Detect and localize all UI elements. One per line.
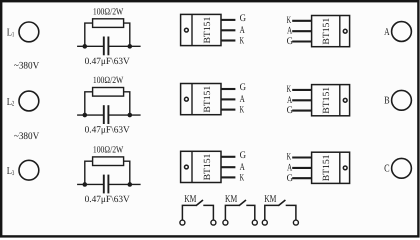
- KM (3) left terminal circle: [262, 220, 267, 225]
- wire: horizontal segment left of capacitor row 1: [77, 45, 104, 47]
- V4 pin lead A: [292, 99, 311, 101]
- wire: right riser to resistor row 3: [124, 161, 130, 184]
- svg-text:K: K: [287, 15, 292, 26]
- svg-text:KM: KM: [264, 194, 277, 205]
- KM (2) left post wire: [225, 205, 239, 220]
- wire: horizontal segment right of capacitor row 1: [108, 45, 140, 47]
- V1 pin lead G: [221, 19, 235, 21]
- svg-text:~380V: ~380V: [14, 131, 40, 142]
- KM (1) switch blade: [196, 200, 203, 206]
- wire: left riser to resistor row 2: [85, 92, 93, 115]
- resistor R 100Ω/2W row 1 body: [93, 19, 124, 28]
- svg-text:A: A: [287, 26, 293, 37]
- svg-text:BT151: BT151: [322, 18, 332, 45]
- svg-text:G: G: [287, 173, 293, 184]
- capacitor C row 1 left plate: [103, 37, 105, 56]
- svg-text:A: A: [287, 162, 293, 173]
- wire: horizontal segment left of capacitor row 3: [77, 183, 104, 185]
- junction dot right row 2: [128, 113, 133, 118]
- resistor R 100Ω/2W row 2 body: [93, 88, 124, 97]
- svg-text:G: G: [287, 36, 293, 47]
- junction dot right row 1: [128, 44, 133, 49]
- wire: right riser to resistor row 2: [124, 92, 130, 115]
- V2 pin lead G: [292, 40, 311, 42]
- terminal B circle: [392, 90, 412, 110]
- svg-text:BT151: BT151: [203, 16, 213, 43]
- capacitor C row 3 left plate: [103, 175, 105, 194]
- terminal C circle: [392, 158, 412, 178]
- svg-text:100Ω/2W: 100Ω/2W: [93, 76, 123, 86]
- V1 pin lead A: [221, 29, 235, 31]
- wire: right riser to resistor row 1: [124, 23, 130, 46]
- svg-text:A: A: [384, 27, 390, 38]
- thyristor V4 BT151 (right, row 2) package: [312, 85, 350, 116]
- wire: horizontal segment right of capacitor row 2: [108, 114, 140, 116]
- thyristor V3 BT151 (left, row 2) package: [181, 84, 221, 115]
- junction dot right row 3: [128, 182, 133, 187]
- V5 pin lead A: [221, 166, 235, 168]
- svg-text:0.47μF\63V: 0.47μF\63V: [85, 126, 130, 136]
- svg-text:A: A: [240, 25, 246, 36]
- svg-text:G: G: [240, 82, 246, 93]
- svg-text:KM: KM: [225, 194, 238, 205]
- KM (2) left terminal circle: [223, 220, 228, 225]
- KM (3) right post wire: [286, 205, 296, 220]
- svg-text:A: A: [287, 95, 293, 106]
- svg-text:A: A: [240, 94, 246, 105]
- svg-text:1: 1: [12, 31, 15, 39]
- V2 pin lead K: [292, 20, 311, 22]
- svg-text:G: G: [287, 105, 293, 116]
- svg-text:0.47μF\63V: 0.47μF\63V: [85, 195, 130, 205]
- thyristor V1 BT151 (left, row 1) package: [181, 14, 221, 45]
- KM (1) right terminal circle: [211, 220, 216, 225]
- terminal A circle: [392, 22, 412, 42]
- svg-text:K: K: [287, 84, 292, 95]
- V6 pin lead A: [292, 167, 311, 169]
- wire: left riser to resistor row 1: [85, 23, 93, 46]
- capacitor C row 3 right plate: [107, 175, 109, 194]
- V5 pin lead G: [221, 156, 235, 158]
- KM (1) left post wire: [182, 205, 196, 220]
- V2 pin lead A: [292, 30, 311, 32]
- svg-text:G: G: [240, 13, 246, 24]
- wire: horizontal segment left of capacitor row 2: [77, 114, 104, 116]
- terminal L2 circle: [19, 91, 39, 111]
- svg-text:K: K: [240, 172, 245, 183]
- V4 pin lead K: [292, 89, 311, 91]
- wire: horizontal segment right of capacitor row 3: [108, 183, 140, 185]
- svg-text:~380V: ~380V: [14, 60, 40, 71]
- V3 pin lead A: [221, 98, 235, 100]
- svg-text:KM: KM: [184, 194, 197, 205]
- svg-text:BT151: BT151: [203, 153, 213, 180]
- junction dot left row 1: [83, 44, 88, 49]
- capacitor C row 2 right plate: [107, 105, 109, 124]
- V3 pin lead K: [221, 109, 235, 111]
- KM (3) switch blade: [278, 200, 285, 206]
- resistor R 100Ω/2W row 3 body: [93, 157, 124, 166]
- thyristor V2 BT151 (right, row 1) package: [312, 16, 350, 47]
- thyristor V5 BT151 (left, row 3) package: [181, 151, 221, 182]
- junction dot left row 3: [83, 182, 88, 187]
- V3 pin lead G: [221, 88, 235, 90]
- V6 pin lead K: [292, 156, 311, 158]
- KM (3) right terminal circle: [293, 220, 298, 225]
- V6 pin lead G: [292, 177, 311, 179]
- KM (2) switch blade: [239, 200, 246, 206]
- svg-text:C: C: [384, 164, 390, 175]
- capacitor C row 1 right plate: [107, 37, 109, 56]
- junction dot left row 2: [83, 113, 88, 118]
- thyristor V6 BT151 (right, row 3) package: [312, 152, 350, 183]
- capacitor C row 2 left plate: [103, 105, 105, 124]
- wire: left riser to resistor row 3: [85, 161, 93, 184]
- svg-text:K: K: [240, 35, 245, 46]
- svg-text:BT151: BT151: [203, 86, 213, 113]
- svg-text:A: A: [240, 162, 246, 173]
- svg-text:BT151: BT151: [322, 154, 332, 181]
- terminal L1 circle: [19, 22, 39, 42]
- svg-text:K: K: [287, 152, 292, 163]
- KM (2) right post wire: [246, 205, 255, 220]
- KM (2) right terminal circle: [252, 220, 257, 225]
- svg-text:G: G: [240, 150, 246, 161]
- svg-text:3: 3: [12, 169, 15, 177]
- terminal L3 circle: [19, 160, 39, 180]
- V5 pin lead K: [221, 176, 235, 178]
- KM (1) left terminal circle: [180, 220, 185, 225]
- V4 pin lead G: [292, 110, 311, 112]
- svg-text:0.47μF\63V: 0.47μF\63V: [85, 57, 130, 67]
- svg-text:BT151: BT151: [322, 87, 332, 114]
- svg-text:B: B: [384, 96, 390, 107]
- svg-text:100Ω/2W: 100Ω/2W: [93, 7, 123, 17]
- KM (1) right post wire: [203, 205, 213, 220]
- svg-text:K: K: [240, 105, 245, 116]
- V1 pin lead K: [221, 39, 235, 41]
- svg-text:2: 2: [12, 100, 15, 108]
- KM (3) left post wire: [265, 205, 279, 220]
- svg-text:100Ω/2W: 100Ω/2W: [93, 145, 123, 155]
